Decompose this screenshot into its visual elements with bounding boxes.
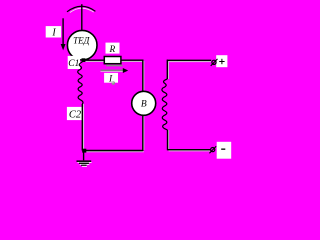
svg-text:С1: С1 bbox=[68, 59, 79, 69]
svg-text:I: I bbox=[51, 28, 56, 39]
svg-text:ТЕД: ТЕД bbox=[73, 35, 91, 45]
svg-text:R: R bbox=[109, 45, 116, 55]
svg-text:В: В bbox=[141, 100, 147, 110]
svg-text:С2: С2 bbox=[69, 109, 82, 120]
